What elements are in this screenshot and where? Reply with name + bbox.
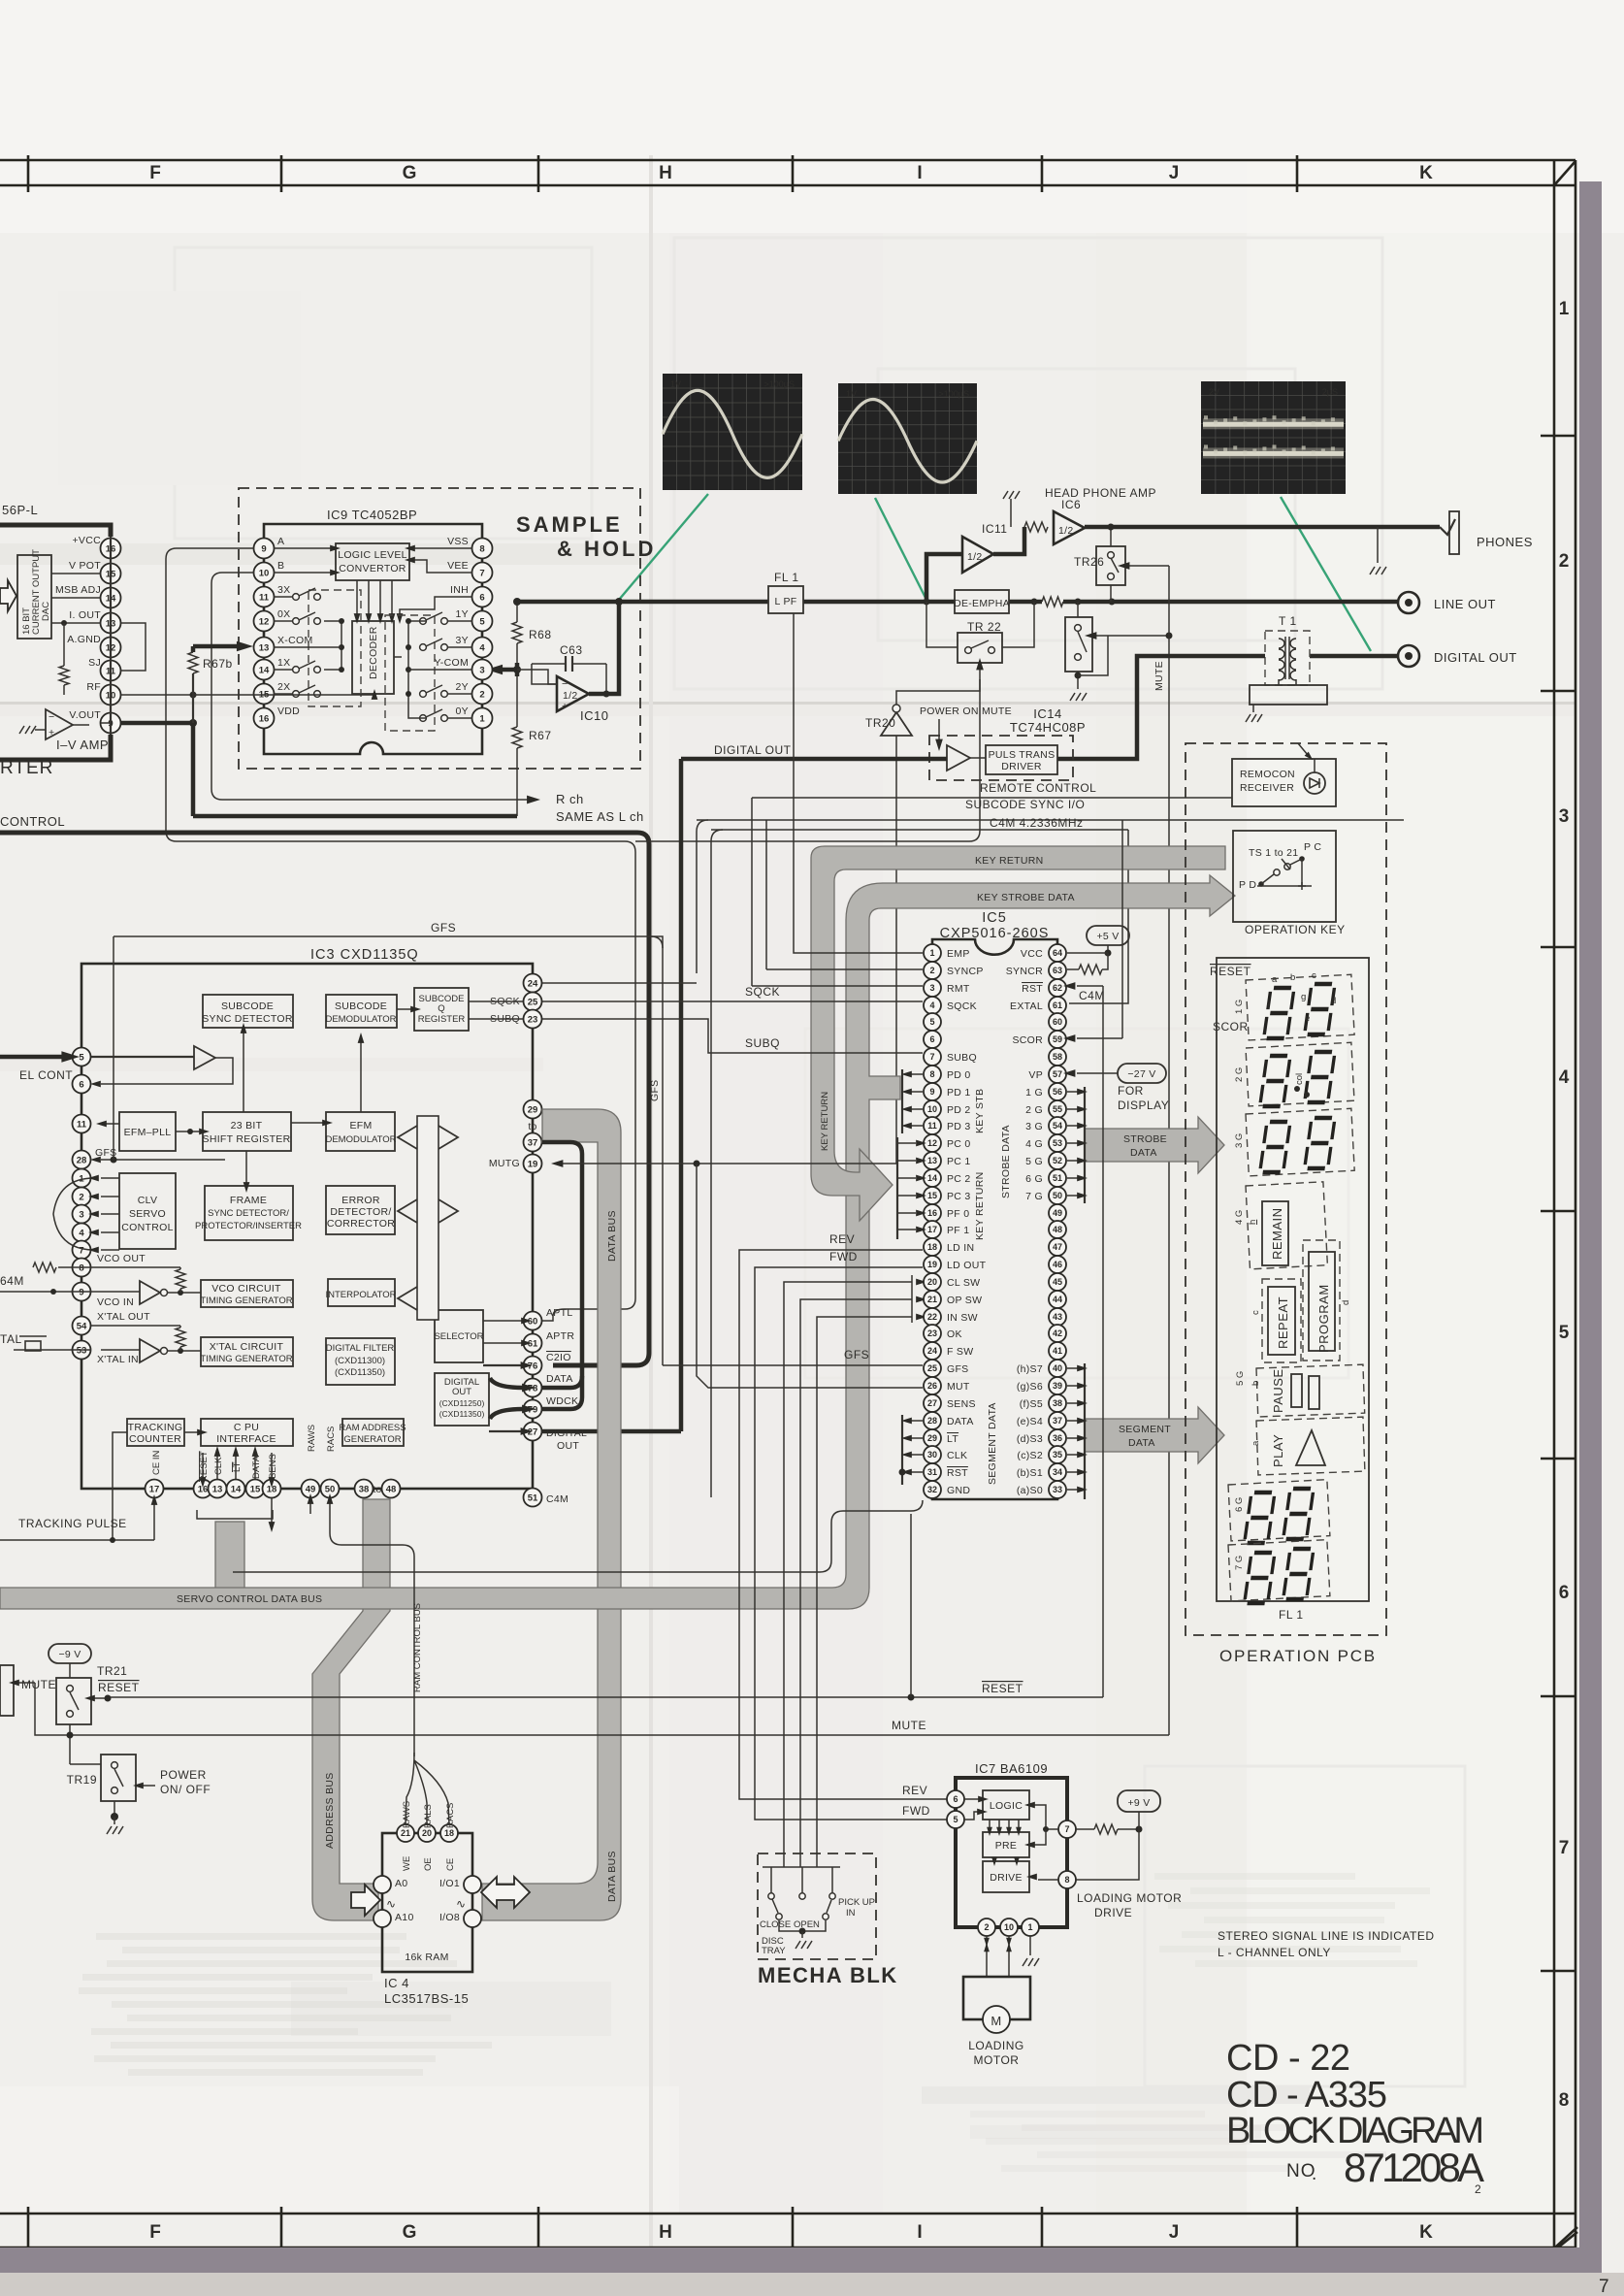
- svg-text:2: 2: [1475, 2182, 1481, 2196]
- wire shift register to demodulator: [291, 1122, 326, 1124]
- VCO external parts: [58, 1266, 91, 1268]
- svg-text:1: 1: [1027, 1922, 1032, 1932]
- corner hatch bottom right: [1555, 2227, 1577, 2247]
- mecha top bracket: [763, 1866, 840, 1868]
- subcode Q register block: [414, 988, 469, 1031]
- svg-text:FOR: FOR: [1118, 1084, 1144, 1098]
- svg-text:23: 23: [528, 1014, 538, 1025]
- svg-text:20: 20: [422, 1828, 432, 1838]
- plus9V supply: [1118, 1790, 1160, 1812]
- svg-text:43: 43: [1053, 1312, 1062, 1322]
- svg-text:(a)S0: (a)S0: [1017, 1485, 1043, 1496]
- svg-text:54: 54: [1053, 1121, 1062, 1131]
- subcode sync detector block: [203, 995, 293, 1028]
- svg-text:+: +: [49, 727, 54, 738]
- RAM address bus gray band: [312, 1499, 390, 1920]
- sample and hold dashed enclosure: [239, 488, 640, 769]
- svg-text:SUBCODE SYNC I/O: SUBCODE SYNC I/O: [965, 798, 1085, 811]
- svg-text:PD 2: PD 2: [947, 1104, 971, 1116]
- puls trans driver block: [986, 745, 1057, 774]
- svg-text:MUT: MUT: [947, 1381, 970, 1393]
- svg-text:−: −: [49, 711, 54, 723]
- svg-text:VP: VP: [1028, 1069, 1043, 1081]
- decoder to Y switches wire: [394, 656, 402, 658]
- svg-text:3: 3: [79, 1209, 83, 1220]
- svg-text:2: 2: [79, 1192, 83, 1202]
- IC7 pins: [947, 1790, 964, 1808]
- IC5 body: [932, 939, 1057, 1499]
- svg-text:GFS: GFS: [947, 1363, 969, 1375]
- svg-text:22: 22: [927, 1312, 937, 1322]
- svg-text:1 G: 1 G: [1025, 1087, 1043, 1099]
- lower thick rail to IC10 column: [193, 814, 517, 819]
- key stb arrows pins 8-11: [901, 1069, 903, 1133]
- svg-text:SEGMENT DATA: SEGMENT DATA: [987, 1402, 998, 1485]
- arrow up into TR22: [979, 667, 981, 679]
- mute vertical rail: [1168, 566, 1170, 1735]
- svg-text:62: 62: [1053, 983, 1062, 993]
- svg-text:48: 48: [386, 1484, 397, 1494]
- svg-text:2V: 2V: [1209, 387, 1219, 397]
- colon dots: [1294, 1086, 1300, 1092]
- T1 base box and ground: [1250, 685, 1327, 705]
- svg-text:C4M: C4M: [546, 1493, 568, 1505]
- svg-text:Q: Q: [438, 1003, 444, 1014]
- wire IC10 output to main line: [589, 602, 619, 694]
- svg-text:59: 59: [1053, 1034, 1062, 1044]
- svg-text:VSS: VSS: [447, 536, 469, 547]
- svg-text:CE IN: CE IN: [151, 1451, 162, 1475]
- wire pin3 RMT riser: [752, 985, 923, 987]
- svg-text:12: 12: [927, 1138, 937, 1148]
- svg-text:PF 1: PF 1: [947, 1225, 969, 1236]
- svg-text:J: J: [1169, 2222, 1180, 2243]
- segment pins bracket and arrows: [1084, 1363, 1086, 1499]
- mecha switch wires to IC5: [784, 1282, 912, 1867]
- svg-text:63: 63: [1053, 966, 1062, 975]
- display group a PLAY: [1256, 1417, 1365, 1475]
- svg-text:17: 17: [927, 1225, 937, 1234]
- IC5 right pin column: [1049, 944, 1066, 962]
- wires convertor to decoder: [356, 580, 358, 617]
- IC7 body: [956, 1778, 1067, 1927]
- svg-text:A10: A10: [395, 1912, 414, 1923]
- svg-text:SJ: SJ: [88, 657, 101, 669]
- svg-text:K: K: [1419, 163, 1433, 183]
- svg-text:TS 1 to 21: TS 1 to 21: [1249, 847, 1298, 859]
- page edge dark strip right: [1579, 181, 1602, 2257]
- svg-text:C2IO: C2IO: [546, 1352, 571, 1363]
- ram control fan to pins: [406, 1753, 414, 1824]
- operation PCB dashed enclosure: [1186, 743, 1386, 1635]
- svg-text:I: I: [917, 163, 922, 183]
- resistor R67b: [191, 646, 196, 652]
- svg-text:(f)S5: (f)S5: [1020, 1398, 1043, 1410]
- arrow into IC9 pin3 Y-COM: [500, 668, 517, 672]
- wire switch2 arrow from mute rail: [1094, 635, 1169, 637]
- display group 6G: [1228, 1480, 1330, 1541]
- bracket pins 20-22: [911, 1275, 913, 1323]
- svg-text:(b)S1: (b)S1: [1017, 1467, 1043, 1479]
- subcode demodulator block: [326, 995, 397, 1028]
- svg-text:1X: 1X: [277, 657, 290, 669]
- svg-text:16: 16: [259, 713, 270, 724]
- svg-text:C4M 4.2336MHz: C4M 4.2336MHz: [990, 816, 1084, 830]
- svg-text:TIMING GENERATOR: TIMING GENERATOR: [200, 1296, 292, 1306]
- display group 2G: [1246, 1042, 1354, 1106]
- selector block: [435, 1310, 483, 1362]
- svg-text:1/2: 1/2: [967, 551, 983, 563]
- svg-text:G: G: [403, 2222, 417, 2243]
- display group 3G: [1246, 1108, 1354, 1176]
- svg-text:PD 1: PD 1: [947, 1087, 971, 1099]
- svg-text:48: 48: [1053, 1225, 1062, 1234]
- wires selector to pins: [483, 1320, 523, 1322]
- svg-text:36: 36: [1053, 1433, 1062, 1443]
- svg-text:(CXD11300): (CXD11300): [335, 1356, 385, 1366]
- svg-text:TR26: TR26: [1074, 555, 1104, 569]
- svg-text:EFM: EFM: [349, 1120, 372, 1132]
- svg-text:+VCC: +VCC: [72, 535, 101, 546]
- svg-text:SHIFT REGISTER: SHIFT REGISTER: [203, 1133, 291, 1145]
- wire TR20 down to MUTG: [895, 736, 897, 1164]
- svg-text:R67: R67: [529, 729, 552, 742]
- svg-text:to: to: [373, 1484, 381, 1495]
- svg-text:6: 6: [79, 1079, 83, 1090]
- wire INH to decoder: [400, 597, 472, 617]
- svg-text:13: 13: [212, 1484, 223, 1494]
- svg-text:GND: GND: [947, 1485, 970, 1496]
- svg-text:1V: 1V: [670, 379, 681, 389]
- svg-text:18: 18: [444, 1828, 454, 1838]
- svg-text:23: 23: [927, 1328, 937, 1338]
- pre block: [983, 1832, 1029, 1857]
- svg-text:POWER ON MUTE: POWER ON MUTE: [920, 705, 1012, 717]
- svg-text:F: F: [149, 163, 161, 183]
- svg-text:.: .: [1312, 2164, 1317, 2184]
- svg-text:8: 8: [479, 543, 484, 554]
- wire TR20 collector to TR22 node: [896, 679, 980, 705]
- svg-text:TC74HC08P: TC74HC08P: [1010, 720, 1086, 735]
- wire IC9 pin B loop to R ch note: [211, 573, 529, 800]
- svg-text:>100µS: >100µS: [764, 379, 795, 389]
- svg-text:R68: R68: [529, 628, 552, 641]
- svg-text:44: 44: [1053, 1295, 1062, 1304]
- svg-text:(d)S3: (d)S3: [1017, 1433, 1043, 1445]
- svg-text:FWD: FWD: [902, 1804, 930, 1818]
- svg-text:IC10: IC10: [580, 708, 608, 723]
- svg-text:LC3517BS-15: LC3517BS-15: [384, 1991, 469, 2006]
- svg-text:2: 2: [984, 1922, 989, 1932]
- headphone level resistor: [1024, 522, 1048, 532]
- svg-text:5: 5: [953, 1815, 958, 1824]
- wire V.OUT down to lower rail thick: [191, 723, 196, 816]
- wire +9V to pin8: [1076, 1829, 1139, 1880]
- svg-text:19: 19: [528, 1159, 538, 1169]
- svg-text:DATA: DATA: [1130, 1147, 1157, 1159]
- feedback from pin8: [1038, 1879, 1058, 1881]
- op-amp I-V AMP: [46, 709, 73, 739]
- svg-text:PC 3: PC 3: [947, 1191, 971, 1202]
- svg-text:0X: 0X: [277, 608, 290, 620]
- svg-text:3 G: 3 G: [1025, 1121, 1043, 1132]
- svg-text:IC14: IC14: [1033, 706, 1061, 721]
- green pointer line from photo 1: [619, 494, 708, 600]
- VP wire from -27V: [1077, 1072, 1118, 1074]
- svg-text:28: 28: [927, 1416, 937, 1426]
- svg-text:PLAY: PLAY: [1271, 1434, 1285, 1467]
- svg-text:V.OUT: V.OUT: [69, 709, 101, 721]
- svg-text:(c)S2: (c)S2: [1017, 1450, 1043, 1461]
- svg-text:45: 45: [1053, 1277, 1062, 1287]
- svg-text:PC 2: PC 2: [947, 1173, 971, 1185]
- svg-text:GFS: GFS: [844, 1348, 869, 1361]
- svg-text:KEY STROBE DATA: KEY STROBE DATA: [977, 892, 1075, 903]
- svg-text:46: 46: [1053, 1260, 1062, 1269]
- display group 7G: [1228, 1540, 1330, 1601]
- interpolator block: [328, 1279, 395, 1306]
- svg-text:38: 38: [1053, 1398, 1062, 1408]
- svg-text:1: 1: [1559, 299, 1570, 319]
- svg-text:EXTAL: EXTAL: [1010, 1000, 1043, 1012]
- de-emphasis block DE-EMPHA: [955, 590, 1009, 613]
- SYNCR resistor: [1067, 968, 1079, 970]
- digital out thick rail: [681, 757, 947, 762]
- svg-text:6: 6: [929, 1034, 934, 1044]
- svg-text:c: c: [1250, 1310, 1261, 1315]
- 23 bit shift register block: [203, 1112, 291, 1151]
- wire pin1 to ground: [1029, 1936, 1031, 1955]
- svg-text:OUT: OUT: [557, 1440, 579, 1452]
- mecha common wire: [779, 1920, 826, 1931]
- wire pin1 EMP to FL1: [794, 613, 923, 953]
- svg-text:c: c: [1312, 970, 1316, 981]
- svg-text:12: 12: [259, 616, 270, 627]
- svg-text:(g)S6: (g)S6: [1017, 1381, 1043, 1393]
- svg-text:64: 64: [1053, 948, 1062, 958]
- mecha switch open: [799, 1893, 805, 1899]
- RAM IC4 body: [382, 1833, 472, 1972]
- wire A rail riser to TR22: [635, 679, 980, 841]
- svg-text:1V: 1V: [846, 389, 857, 399]
- svg-text:10: 10: [1004, 1922, 1014, 1932]
- svg-text:IC3 CXD1135Q: IC3 CXD1135Q: [310, 947, 419, 963]
- IC9 TC4052BP body: [264, 524, 482, 754]
- main audio signal line thick: [517, 600, 768, 605]
- svg-text:5: 5: [1559, 1323, 1570, 1343]
- ground above headphone pot: [1003, 491, 1008, 499]
- svg-text:A.GND: A.GND: [67, 634, 101, 645]
- wire V.OUT thick: [73, 724, 89, 726]
- svg-text:RST: RST: [947, 1467, 968, 1479]
- svg-text:APTL: APTL: [546, 1307, 572, 1319]
- svg-text:RACS: RACS: [326, 1427, 337, 1452]
- Y switch common junctions: [408, 621, 427, 718]
- svg-text:CONTROL: CONTROL: [121, 1222, 173, 1233]
- EFM PLL block: [119, 1112, 176, 1151]
- svg-text:40: 40: [1053, 1363, 1062, 1373]
- phones jack: [1440, 519, 1455, 535]
- svg-text:13: 13: [927, 1156, 937, 1165]
- svg-text:RAM CONTROL BUS: RAM CONTROL BUS: [412, 1603, 423, 1692]
- 16 bit current output DAC block: [17, 555, 51, 639]
- X'TAL circuit timing generator block: [201, 1337, 293, 1366]
- inverter at VCO: [140, 1281, 160, 1304]
- wires pins A,B to logic level convertor: [274, 547, 336, 549]
- svg-text:∿: ∿: [386, 1897, 397, 1911]
- svg-text:V POT: V POT: [69, 560, 101, 572]
- svg-text:PC 1: PC 1: [947, 1156, 971, 1167]
- svg-text:PROGRAM: PROGRAM: [1316, 1284, 1331, 1353]
- svg-text:4: 4: [79, 1228, 84, 1238]
- svg-text:VCO CIRCUIT: VCO CIRCUIT: [211, 1283, 281, 1295]
- svg-text:R67b: R67b: [203, 657, 233, 671]
- key return gray band: [811, 846, 1225, 1221]
- svg-text:1: 1: [929, 948, 934, 958]
- svg-text:RECEIVER: RECEIVER: [1240, 782, 1294, 794]
- wire pin6 loop: [101, 1058, 233, 1084]
- svg-text:DIGITAL OUT: DIGITAL OUT: [1434, 650, 1517, 665]
- resistor R68: [516, 602, 518, 622]
- svg-text:MUTG: MUTG: [489, 1158, 520, 1169]
- DAC IC outline partial: [0, 525, 111, 537]
- thick wires DATA WDCK: [490, 1378, 523, 1388]
- svg-text:51: 51: [528, 1492, 538, 1503]
- svg-text:SQCK: SQCK: [745, 985, 780, 999]
- svg-text:DATA: DATA: [546, 1373, 573, 1385]
- svg-text:16: 16: [927, 1208, 937, 1218]
- svg-text:MECHA BLK: MECHA BLK: [758, 1963, 898, 1987]
- svg-text:(CXD11350): (CXD11350): [439, 1409, 485, 1419]
- svg-text:DRIVE: DRIVE: [1094, 1906, 1132, 1919]
- mecha switch close: [768, 1893, 774, 1899]
- svg-text:RESET: RESET: [982, 1682, 1023, 1695]
- svg-text:L - CHANNEL ONLY: L - CHANNEL ONLY: [1218, 1946, 1331, 1959]
- svg-text:IN SW: IN SW: [947, 1312, 978, 1324]
- svg-text:2: 2: [929, 966, 934, 975]
- svg-text:DIGITAL OUT: DIGITAL OUT: [714, 743, 792, 757]
- svg-text:6 G: 6 G: [1234, 1497, 1245, 1512]
- CLV servo control block: [119, 1173, 176, 1249]
- display group d PROGRAM: [1303, 1240, 1340, 1361]
- svg-text:51: 51: [1053, 1173, 1062, 1183]
- svg-text:OE: OE: [423, 1857, 434, 1871]
- IC9 right pins: [472, 539, 493, 559]
- svg-text:OPEN: OPEN: [794, 1919, 820, 1930]
- display group 4G REMAIN: [1246, 1182, 1327, 1269]
- svg-text:DATA: DATA: [1128, 1437, 1155, 1449]
- svg-text:REV: REV: [829, 1232, 855, 1246]
- border frame right: [1553, 160, 1556, 2247]
- EFM demodulator block: [326, 1112, 395, 1151]
- error detector corrector block: [326, 1186, 395, 1234]
- svg-text:TRACKING PULSE: TRACKING PULSE: [18, 1517, 127, 1530]
- svg-text:J: J: [1169, 163, 1180, 183]
- svg-text:DRIVER: DRIVER: [1001, 761, 1042, 772]
- wire TR21 gate arrow: [93, 1697, 108, 1699]
- IC5 left pin column: [924, 944, 941, 962]
- wire pin11 to EFM PLL: [101, 1123, 119, 1125]
- svg-text:POWER: POWER: [160, 1768, 207, 1782]
- wires DAC to pins: [51, 573, 101, 574]
- CE IN riser pin17: [153, 1503, 155, 1540]
- IC14 dashed box: [929, 736, 1073, 780]
- svg-text:X-COM: X-COM: [277, 635, 313, 646]
- logic block: [983, 1790, 1029, 1820]
- svg-text:SYNCR: SYNCR: [1006, 966, 1043, 977]
- 7seg digit drawings 1G: [1264, 988, 1294, 1038]
- svg-text:64M: 64M: [0, 1274, 24, 1288]
- svg-text:EFM–PLL: EFM–PLL: [124, 1127, 172, 1138]
- svg-text:h: h: [1248, 1220, 1258, 1225]
- svg-text:B: B: [277, 560, 284, 572]
- svg-text:60: 60: [1053, 1017, 1062, 1027]
- ram control bus rail: [330, 1514, 414, 1756]
- feedback from pin7: [1034, 1805, 1058, 1829]
- svg-text:54: 54: [77, 1321, 87, 1331]
- motor wires with arrows: [986, 1936, 988, 1977]
- svg-text:R ch: R ch: [556, 792, 584, 806]
- thick input arrow into pin5: [0, 1055, 62, 1060]
- svg-text:8: 8: [1064, 1875, 1069, 1885]
- svg-text:7: 7: [479, 568, 484, 578]
- resistor on line out path: [1042, 597, 1063, 607]
- svg-text:CLOSE: CLOSE: [760, 1919, 791, 1930]
- sens wire down: [271, 1498, 273, 1524]
- svg-text:15: 15: [250, 1484, 261, 1494]
- wire IC10 minus input from Y-COM node: [517, 670, 557, 684]
- big data-path arrows inside IC3: [417, 1116, 438, 1320]
- svg-text:DAC: DAC: [41, 602, 51, 621]
- svg-text:d: d: [1341, 1300, 1351, 1305]
- svg-text:0Y: 0Y: [456, 705, 469, 717]
- svg-text:4 G: 4 G: [1234, 1210, 1245, 1225]
- oscillogram photo 1 sine: [663, 374, 802, 490]
- wire audio to IC11: [926, 554, 962, 602]
- svg-text:REPEAT: REPEAT: [1276, 1296, 1290, 1349]
- cpu interface pin arrows: [202, 1453, 204, 1479]
- wire TR26 to headphone line: [1110, 527, 1112, 546]
- svg-text:∿: ∿: [456, 1897, 467, 1911]
- svg-text:25: 25: [528, 997, 538, 1007]
- svg-text:60: 60: [528, 1316, 538, 1327]
- svg-text:35: 35: [1053, 1450, 1062, 1460]
- svg-text:3: 3: [1559, 806, 1570, 827]
- digital line to jack thick: [1310, 654, 1398, 659]
- svg-text:IC9 TC4052BP: IC9 TC4052BP: [327, 508, 417, 522]
- svg-text:1Y: 1Y: [456, 608, 469, 620]
- svg-text:to: to: [528, 1121, 536, 1132]
- svg-text:2: 2: [1559, 551, 1570, 572]
- svg-text:X'TAL OUT: X'TAL OUT: [97, 1311, 150, 1323]
- Y-side analog switches: [385, 615, 435, 731]
- svg-text:DATA BUS: DATA BUS: [606, 1851, 618, 1902]
- wire RF to S+H: [120, 694, 193, 696]
- svg-text:38: 38: [359, 1484, 370, 1494]
- svg-text:20: 20: [927, 1277, 937, 1287]
- svg-text:FL 1: FL 1: [1279, 1608, 1304, 1622]
- svg-text:CL SW: CL SW: [947, 1277, 980, 1289]
- svg-text:F: F: [149, 2222, 161, 2243]
- svg-text:GENERATOR: GENERATOR: [343, 1434, 401, 1445]
- wire R67 to lower rail: [516, 748, 518, 816]
- wire TR26 arrow from mute rail: [1127, 565, 1169, 567]
- svg-text:IC7 BA6109: IC7 BA6109: [975, 1761, 1048, 1776]
- svg-text:MUTE: MUTE: [21, 1678, 56, 1691]
- svg-text:TRAY: TRAY: [762, 1946, 786, 1956]
- svg-text:RAWS: RAWS: [402, 1801, 412, 1828]
- svg-text:14: 14: [927, 1173, 937, 1183]
